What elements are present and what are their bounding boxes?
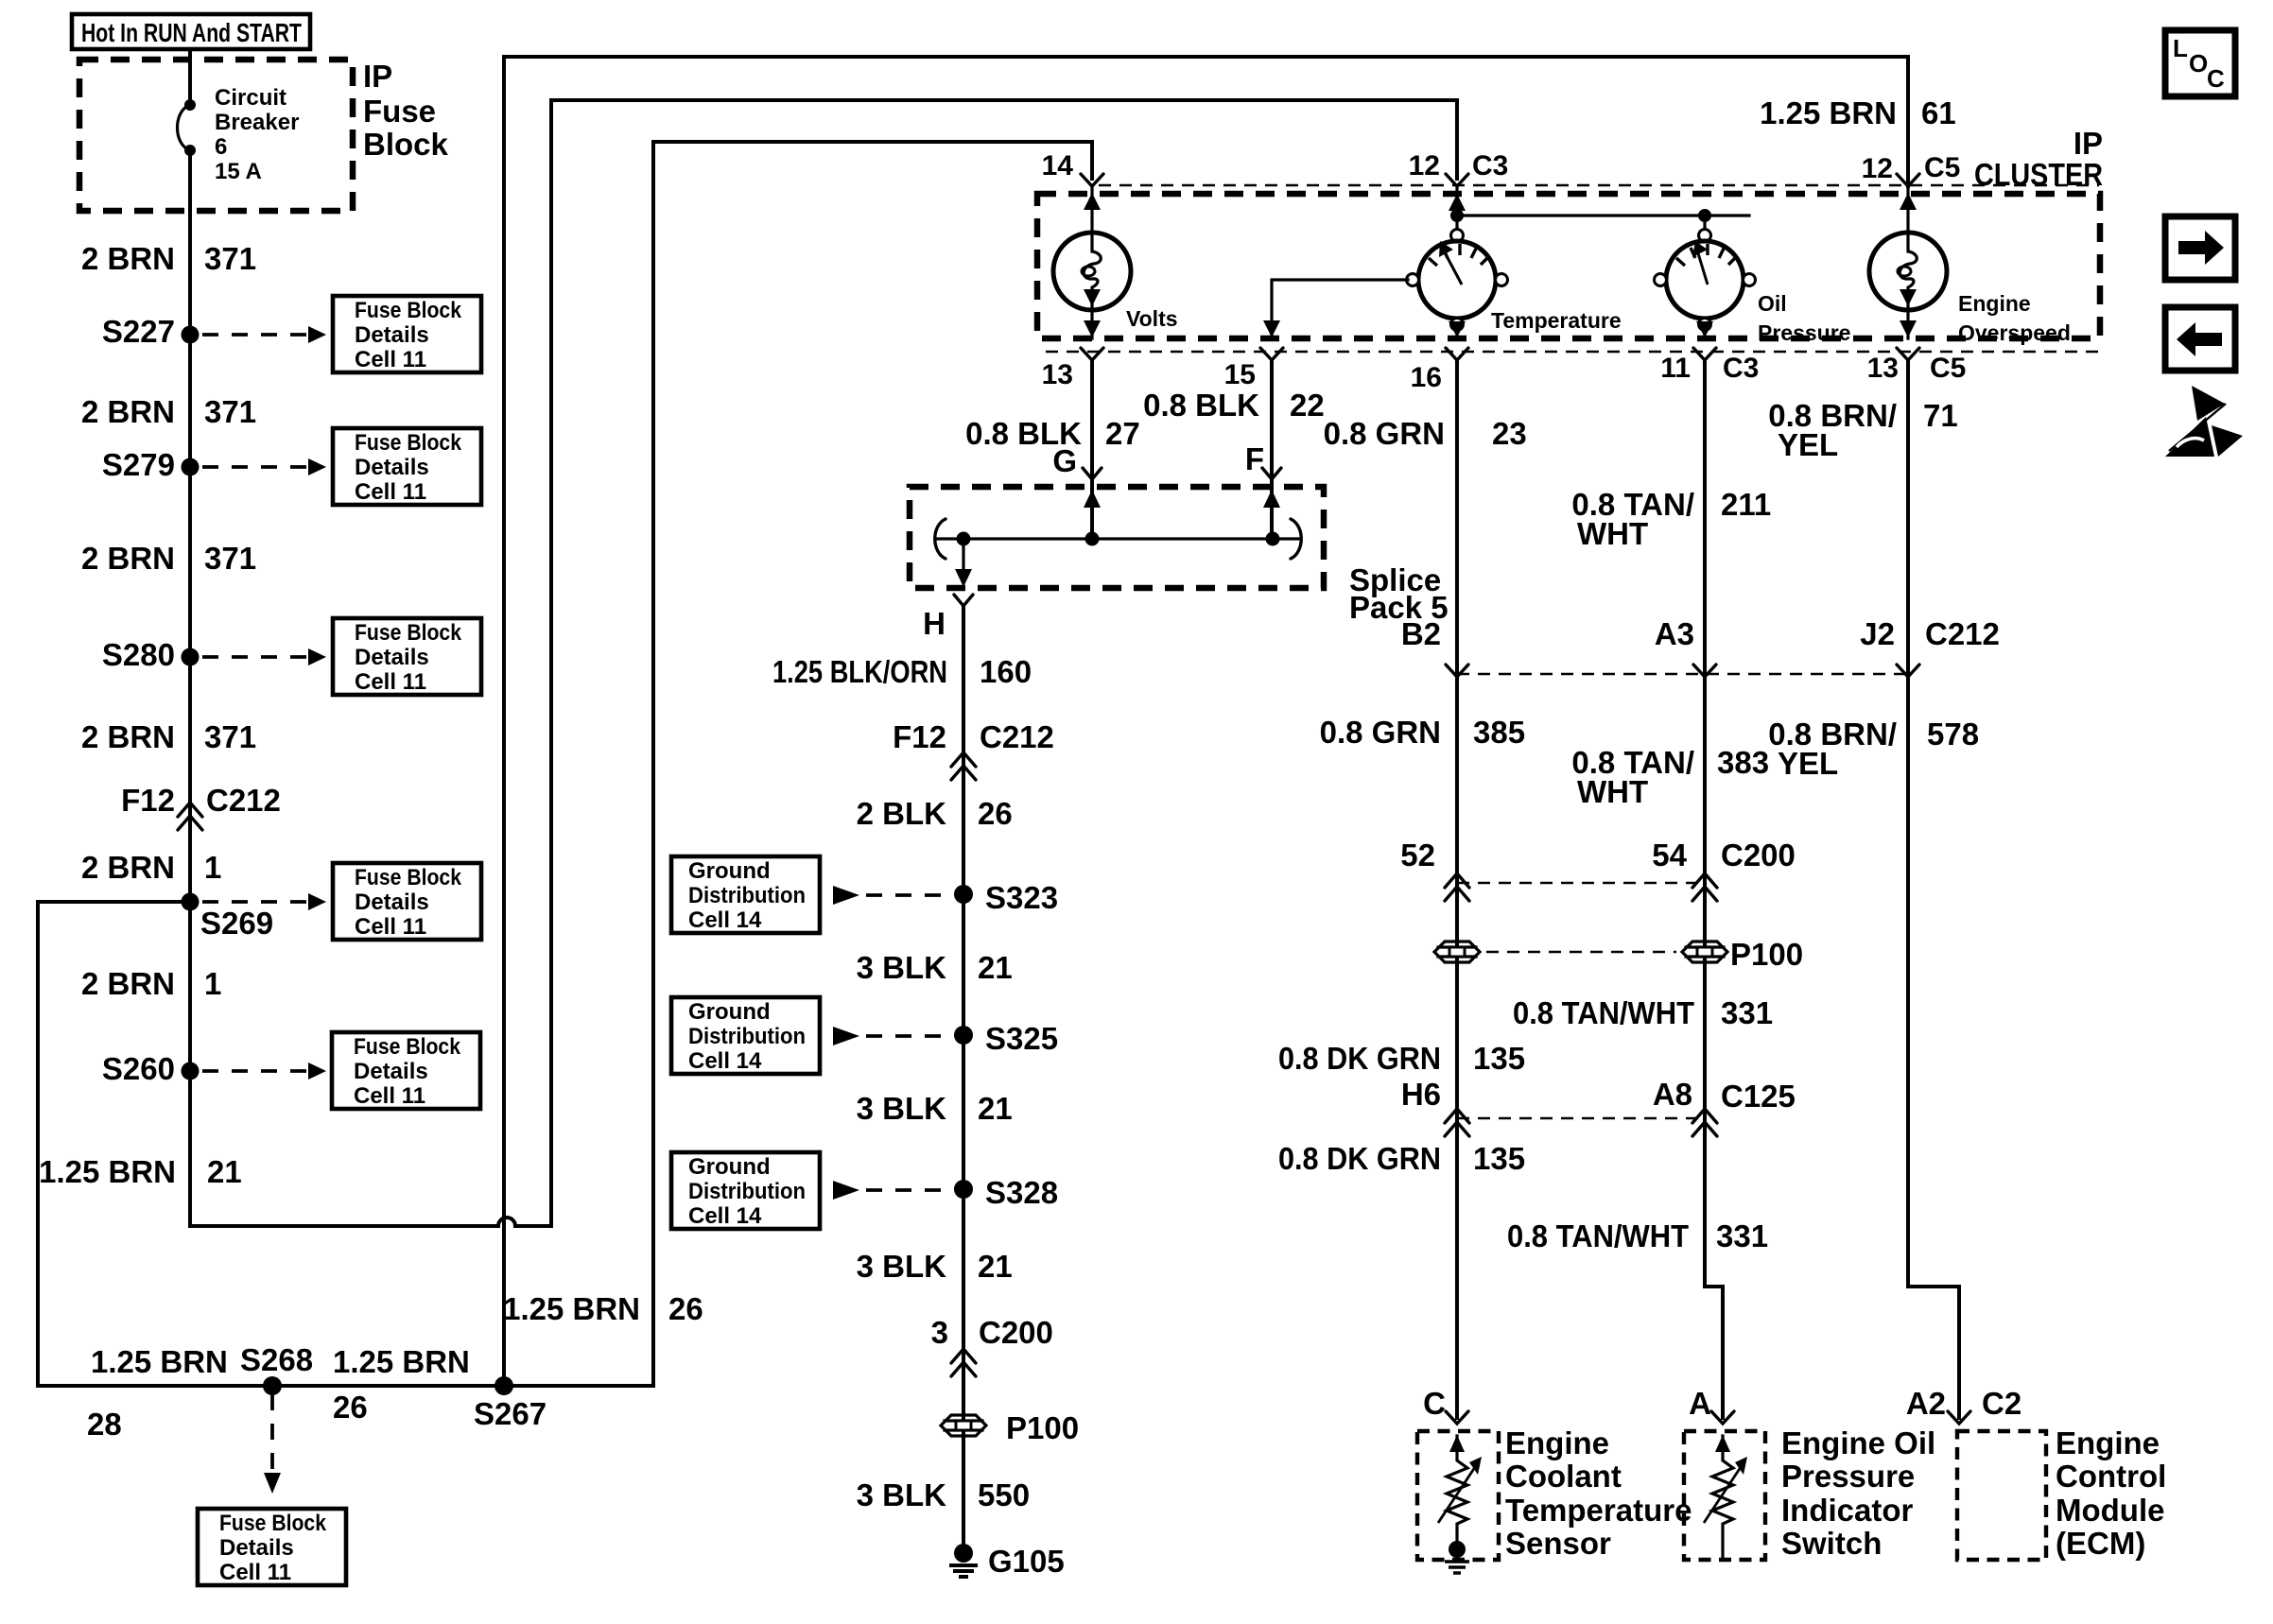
svg-text:13: 13 bbox=[1042, 359, 1073, 390]
connector row C200 dashed bbox=[1457, 882, 1705, 885]
arrow down splice H leg bbox=[955, 539, 972, 587]
svg-text:21: 21 bbox=[978, 1091, 1013, 1126]
svg-text:Engine Oil: Engine Oil bbox=[1781, 1425, 1935, 1460]
label Engine Oil Pressure Indicator Switch bbox=[1781, 1425, 1935, 1561]
svg-text:0.8 BLK: 0.8 BLK bbox=[1143, 388, 1259, 423]
gauge Oil Pressure bbox=[1655, 209, 1851, 345]
svg-text:Cell 11: Cell 11 bbox=[355, 669, 426, 695]
svg-text:Circuit: Circuit bbox=[215, 85, 286, 111]
svg-text:Coolant: Coolant bbox=[1505, 1459, 1622, 1494]
svg-text:3 BLK: 3 BLK bbox=[857, 950, 947, 985]
svg-text:Fuse Block: Fuse Block bbox=[355, 620, 462, 646]
connector row C212 dashed bbox=[1457, 673, 1908, 676]
label 3 BLK 21 (2) bbox=[857, 1091, 1013, 1126]
pin 12 C5 (overspeed feed) bbox=[1862, 152, 1961, 186]
svg-text:2 BRN: 2 BRN bbox=[81, 966, 175, 1001]
svg-text:371: 371 bbox=[204, 719, 256, 754]
label 1.25 BRN 61 bbox=[1760, 95, 1956, 130]
label 2 BRN 371 (3) bbox=[81, 541, 256, 576]
svg-text:2 BRN: 2 BRN bbox=[81, 850, 175, 885]
svg-text:B2: B2 bbox=[1401, 616, 1441, 651]
svg-text:Ground: Ground bbox=[688, 1154, 771, 1180]
splice S268 bbox=[240, 1342, 313, 1395]
svg-text:S280: S280 bbox=[102, 637, 175, 672]
legend arrow left box bbox=[2165, 307, 2235, 371]
svg-text:L: L bbox=[2173, 34, 2188, 62]
box Ground Distribution Cell 14 (S328) bbox=[671, 1152, 820, 1229]
svg-text:2 BRN: 2 BRN bbox=[81, 719, 175, 754]
label 0.8 GRN 385 bbox=[1320, 715, 1525, 750]
arrow up splice G leg bbox=[1084, 490, 1101, 539]
box Fuse Block Details Cell 11 (S268) bbox=[198, 1509, 346, 1585]
label 2 BLK 26 bbox=[857, 796, 1013, 831]
label 0.8 TAN/ 383 bbox=[1571, 745, 1769, 809]
svg-text:WHT: WHT bbox=[1577, 516, 1648, 551]
svg-text:P100: P100 bbox=[1006, 1410, 1079, 1445]
svg-text:WHT: WHT bbox=[1577, 774, 1648, 809]
svg-text:Control: Control bbox=[2056, 1459, 2166, 1494]
label Engine Control Module (ECM) bbox=[2056, 1425, 2166, 1561]
svg-text:26: 26 bbox=[978, 796, 1013, 831]
svg-text:H: H bbox=[923, 606, 946, 641]
label Splice Pack 5 bbox=[1349, 562, 1449, 625]
svg-text:A8: A8 bbox=[1653, 1077, 1692, 1112]
pin 15 bbox=[1224, 348, 1283, 390]
svg-text:1.25 BRN: 1.25 BRN bbox=[503, 1291, 640, 1326]
svg-text:2 BRN: 2 BRN bbox=[81, 541, 175, 576]
label 0.8 BRN/ 71 bbox=[1768, 398, 1957, 462]
svg-text:28: 28 bbox=[87, 1407, 122, 1442]
Engine Oil Pressure Indicator Switch dashed box bbox=[1684, 1431, 1765, 1560]
svg-text:Cell 14: Cell 14 bbox=[688, 1048, 762, 1074]
svg-text:Fuse Block: Fuse Block bbox=[355, 865, 462, 890]
svg-text:CLUSTER: CLUSTER bbox=[1974, 157, 2103, 192]
svg-text:Pressure: Pressure bbox=[1758, 320, 1850, 345]
dashed arrow to S325 bbox=[833, 1027, 946, 1045]
svg-text:12: 12 bbox=[1862, 153, 1893, 184]
svg-text:S323: S323 bbox=[985, 880, 1058, 915]
svg-text:C212: C212 bbox=[1925, 616, 2000, 651]
svg-text:F12: F12 bbox=[121, 783, 175, 818]
svg-text:135: 135 bbox=[1473, 1141, 1525, 1176]
cluster connector row (bottom thin dashed) bbox=[1046, 351, 2099, 354]
wire: 0.8 BLK 27 volts to splice G bbox=[1090, 360, 1094, 539]
svg-text:71: 71 bbox=[1923, 398, 1958, 433]
svg-text:Engine: Engine bbox=[1958, 291, 2031, 316]
svg-text:16: 16 bbox=[1411, 362, 1442, 393]
svg-text:Block: Block bbox=[363, 127, 449, 162]
lamp Engine Overspeed bbox=[1869, 186, 2071, 345]
svg-text:Details: Details bbox=[355, 455, 429, 480]
splice S325 bbox=[954, 1021, 1058, 1056]
svg-text:3: 3 bbox=[931, 1315, 948, 1350]
svg-text:550: 550 bbox=[978, 1477, 1030, 1512]
dashed arrow S268 down to details box bbox=[264, 1394, 281, 1494]
LOC legend box bbox=[2165, 30, 2235, 96]
label 0.8 BLK 22 bbox=[1143, 388, 1325, 423]
pin B2 connector C212 bbox=[1401, 616, 1468, 677]
svg-text:3 BLK: 3 BLK bbox=[857, 1477, 947, 1512]
dashed arrow S260 to details box bbox=[202, 1063, 326, 1080]
ground G105 bbox=[949, 1544, 1065, 1579]
svg-text:1.25 BRN: 1.25 BRN bbox=[91, 1344, 228, 1379]
label 3 BLK 550 bbox=[857, 1477, 1030, 1512]
splice S269 bbox=[182, 893, 274, 942]
svg-text:1.25 BLK/ORN: 1.25 BLK/ORN bbox=[772, 654, 947, 689]
wire: 0.8 GRN coolant sensor column bbox=[1455, 360, 1459, 1418]
label 3 BLK 21 (3) bbox=[857, 1249, 1013, 1284]
grommet P100 middle leg bbox=[941, 1410, 1079, 1445]
label 0.8 TAN/ 211 bbox=[1571, 487, 1771, 551]
label 0.8 TAN/WHT 331 (1) bbox=[1513, 995, 1773, 1030]
dashed arrow S280 to details box bbox=[202, 648, 326, 665]
svg-text:Switch: Switch bbox=[1781, 1526, 1882, 1561]
svg-text:Cell 11: Cell 11 bbox=[355, 347, 426, 372]
svg-text:Fuse: Fuse bbox=[363, 94, 436, 129]
dashed arrow S269 to details box bbox=[202, 893, 326, 910]
svg-text:11: 11 bbox=[1660, 353, 1691, 384]
svg-text:6: 6 bbox=[215, 134, 227, 160]
svg-text:C200: C200 bbox=[979, 1315, 1053, 1350]
svg-text:S328: S328 bbox=[985, 1175, 1058, 1210]
svg-text:A3: A3 bbox=[1655, 616, 1694, 651]
pin C coolant sensor bbox=[1423, 1386, 1468, 1424]
pin 16 bbox=[1411, 348, 1468, 393]
pin 13 C5 bbox=[1867, 348, 1967, 384]
svg-text:Engine: Engine bbox=[1505, 1425, 1609, 1460]
label 1.25 BRN 26 (riser) bbox=[503, 1291, 703, 1326]
svg-text:Details: Details bbox=[354, 1059, 428, 1084]
svg-text:Overspeed: Overspeed bbox=[1958, 320, 2071, 345]
svg-text:Details: Details bbox=[355, 322, 429, 348]
wire: 1.25 BRN 61 S267 riser bbox=[504, 57, 1908, 186]
svg-text:C212: C212 bbox=[206, 783, 281, 818]
svg-text:1.25 BRN: 1.25 BRN bbox=[1760, 95, 1897, 130]
header box "Hot In RUN And START" bbox=[72, 14, 310, 49]
svg-text:Hot In RUN And START: Hot In RUN And START bbox=[81, 18, 302, 47]
label 2 BRN 371 (2) bbox=[81, 394, 256, 429]
circuit breaker 6 15A bbox=[178, 85, 300, 184]
svg-text:21: 21 bbox=[207, 1154, 242, 1189]
svg-text:14: 14 bbox=[1042, 150, 1074, 181]
splice pack bus bbox=[935, 519, 1302, 559]
label 2 BRN 371 (4) bbox=[81, 719, 256, 754]
ESD warning symbol bbox=[2165, 386, 2243, 457]
splice S328 bbox=[954, 1175, 1058, 1210]
switch symbol oil pressure bbox=[1704, 1435, 1747, 1558]
svg-text:Temperature: Temperature bbox=[1505, 1493, 1692, 1528]
svg-text:Module: Module bbox=[2056, 1493, 2164, 1528]
connector C212 pin F12 middle leg bbox=[893, 719, 1054, 780]
IP CLUSTER dashed box bbox=[1037, 194, 2100, 338]
Engine Coolant Temperature Sensor dashed box bbox=[1417, 1431, 1499, 1560]
svg-text:A2: A2 bbox=[1906, 1386, 1946, 1421]
svg-text:27: 27 bbox=[1105, 416, 1140, 451]
box Fuse Block Details Cell 11 (S260) bbox=[332, 1032, 480, 1109]
svg-text:331: 331 bbox=[1716, 1218, 1768, 1253]
svg-text:C212: C212 bbox=[980, 719, 1054, 754]
svg-text:1.25 BRN: 1.25 BRN bbox=[39, 1154, 176, 1189]
svg-text:371: 371 bbox=[204, 541, 256, 576]
box Ground Distribution Cell 14 (S325) bbox=[671, 997, 820, 1074]
svg-text:3 BLK: 3 BLK bbox=[857, 1249, 947, 1284]
svg-text:F: F bbox=[1245, 441, 1264, 476]
wire: 1.25 BRN 26 up to cluster pin 12 C3 bbox=[515, 100, 1457, 1226]
svg-text:61: 61 bbox=[1921, 95, 1956, 130]
svg-text:0.8 GRN: 0.8 GRN bbox=[1320, 715, 1441, 750]
svg-text:3 BLK: 3 BLK bbox=[857, 1091, 947, 1126]
box Fuse Block Details Cell 11 (S279) bbox=[333, 428, 481, 505]
wire: 1.25 BLK/ORN 160 middle ground leg bbox=[962, 606, 965, 1553]
wire: S267 vertical bbox=[502, 57, 506, 1386]
svg-text:1: 1 bbox=[204, 966, 221, 1001]
wire hop over S267 vertical bbox=[498, 1218, 515, 1226]
svg-text:Indicator: Indicator bbox=[1781, 1493, 1914, 1528]
wire: branch from S269 to ground bus bbox=[38, 142, 1092, 1386]
svg-text:0.8 TAN/WHT: 0.8 TAN/WHT bbox=[1507, 1218, 1689, 1253]
Engine Control Module dashed box bbox=[1957, 1431, 2046, 1560]
svg-text:S279: S279 bbox=[102, 447, 175, 482]
svg-text:J2: J2 bbox=[1860, 616, 1895, 651]
svg-text:160: 160 bbox=[980, 654, 1032, 689]
svg-text:Distribution: Distribution bbox=[688, 1179, 806, 1204]
svg-text:2 BLK: 2 BLK bbox=[857, 796, 947, 831]
svg-text:C125: C125 bbox=[1721, 1079, 1796, 1114]
svg-text:Breaker: Breaker bbox=[215, 110, 299, 135]
svg-text:1: 1 bbox=[204, 850, 221, 885]
svg-text:Engine: Engine bbox=[2056, 1425, 2160, 1460]
pin 13 bbox=[1042, 348, 1103, 390]
svg-text:Cell 11: Cell 11 bbox=[355, 914, 426, 940]
svg-text:Temperature: Temperature bbox=[1491, 308, 1622, 333]
pin A8 connector C125 bbox=[1653, 1077, 1796, 1136]
pin 11 C3 bbox=[1660, 348, 1759, 384]
svg-text:21: 21 bbox=[978, 1249, 1013, 1284]
svg-text:1.25 BRN: 1.25 BRN bbox=[333, 1344, 470, 1379]
IP Fuse Block dashed box bbox=[79, 60, 353, 211]
wire: temperature gauge elbow to pin 15 bbox=[1272, 280, 1408, 338]
svg-text:2 BRN: 2 BRN bbox=[81, 241, 175, 276]
svg-text:211: 211 bbox=[1721, 487, 1771, 522]
svg-text:2 BRN: 2 BRN bbox=[81, 394, 175, 429]
svg-text:Sensor: Sensor bbox=[1505, 1526, 1611, 1561]
box Fuse Block Details Cell 11 (S280) bbox=[333, 618, 481, 695]
svg-text:C2: C2 bbox=[1982, 1386, 2021, 1421]
svg-text:15: 15 bbox=[1224, 359, 1256, 390]
pin 54 connector C200 bbox=[1652, 838, 1796, 901]
pin J2 connector C212 bbox=[1860, 616, 2000, 677]
thermistor symbol coolant sensor bbox=[1438, 1435, 1482, 1573]
grommet P100 coolant column bbox=[1434, 942, 1480, 962]
svg-text:15 A: 15 A bbox=[215, 159, 262, 184]
svg-text:Pressure: Pressure bbox=[1781, 1459, 1915, 1494]
label 0.8 DK GRN 135 (1) bbox=[1278, 1041, 1525, 1076]
svg-text:G105: G105 bbox=[988, 1544, 1065, 1579]
svg-text:S267: S267 bbox=[474, 1396, 547, 1431]
box Fuse Block Details Cell 11 (S269) bbox=[333, 863, 481, 940]
label 0.8 TAN/WHT 331 (2) bbox=[1507, 1218, 1768, 1253]
pin A2 C2 ECM bbox=[1906, 1386, 2021, 1424]
svg-text:331: 331 bbox=[1721, 995, 1773, 1030]
svg-text:0.8 GRN: 0.8 GRN bbox=[1324, 416, 1445, 451]
pin 52 connector C200 bbox=[1400, 838, 1469, 901]
label Engine Coolant Temperature Sensor bbox=[1505, 1425, 1692, 1561]
label 3 BLK 21 (1) bbox=[857, 950, 1013, 985]
wire: 0.8 TAN/WHT oil pressure column bbox=[1705, 360, 1723, 1418]
svg-text:A: A bbox=[1689, 1386, 1711, 1421]
svg-text:13: 13 bbox=[1867, 353, 1899, 384]
label 0.8 GRN 23 bbox=[1324, 416, 1527, 451]
svg-text:Cell 11: Cell 11 bbox=[219, 1560, 291, 1585]
dashed arrow S279 to details box bbox=[202, 458, 326, 475]
svg-text:22: 22 bbox=[1290, 388, 1325, 423]
svg-text:383: 383 bbox=[1717, 745, 1769, 780]
svg-text:0.8 DK GRN: 0.8 DK GRN bbox=[1278, 1141, 1441, 1176]
svg-text:Cell 11: Cell 11 bbox=[355, 479, 426, 505]
box Ground Distribution Cell 14 (S323) bbox=[671, 856, 820, 933]
label 0.8 BLK 27 bbox=[965, 416, 1140, 451]
splice S279 bbox=[102, 447, 200, 482]
Splice Pack 5 dashed box bbox=[910, 487, 1324, 588]
lamp Volts bbox=[1053, 186, 1178, 338]
label 2 BRN 1 (2) bbox=[81, 966, 221, 1001]
label 2 BRN 1 (1) bbox=[81, 850, 221, 885]
arrow up splice F leg bbox=[1263, 490, 1280, 539]
splice S280 bbox=[102, 637, 200, 672]
pin 12 C3 (temperature feed) bbox=[1409, 150, 1509, 186]
svg-text:54: 54 bbox=[1652, 838, 1687, 872]
svg-text:C: C bbox=[1423, 1386, 1446, 1421]
svg-text:Details: Details bbox=[355, 645, 429, 670]
pin 14 (volts feed) bbox=[1042, 150, 1103, 186]
svg-text:S269: S269 bbox=[200, 906, 273, 941]
label IP Fuse Block bbox=[363, 59, 449, 162]
svg-text:Cell 11: Cell 11 bbox=[354, 1083, 425, 1109]
wire: 12C3 jumper to oil pressure gauge bbox=[1457, 214, 1749, 216]
label 2 BRN 371 (1) bbox=[81, 241, 256, 276]
svg-text:Volts: Volts bbox=[1126, 306, 1178, 331]
svg-text:C5: C5 bbox=[1930, 353, 1966, 384]
svg-text:S260: S260 bbox=[102, 1051, 175, 1086]
label IP CLUSTER bbox=[1974, 126, 2103, 192]
svg-text:C200: C200 bbox=[1721, 838, 1796, 872]
grommet P100 oil column bbox=[1682, 937, 1803, 972]
svg-text:P100: P100 bbox=[1730, 937, 1803, 972]
svg-text:Distribution: Distribution bbox=[688, 883, 806, 908]
pin F splice pack bbox=[1245, 441, 1281, 479]
svg-text:52: 52 bbox=[1400, 838, 1435, 872]
svg-text:21: 21 bbox=[978, 950, 1013, 985]
svg-text:IP: IP bbox=[2073, 126, 2103, 161]
label 0.8 BRN/ 578 bbox=[1768, 717, 1979, 781]
splice S260 bbox=[102, 1051, 200, 1086]
svg-text:135: 135 bbox=[1473, 1041, 1525, 1076]
svg-text:H6: H6 bbox=[1401, 1077, 1441, 1112]
svg-text:G: G bbox=[1052, 443, 1077, 478]
svg-text:YEL: YEL bbox=[1778, 427, 1838, 462]
svg-text:S325: S325 bbox=[985, 1021, 1058, 1056]
svg-text:Cell 14: Cell 14 bbox=[688, 907, 762, 933]
svg-text:Fuse Block: Fuse Block bbox=[355, 430, 462, 456]
svg-text:(ECM): (ECM) bbox=[2056, 1526, 2145, 1561]
svg-text:Oil: Oil bbox=[1758, 291, 1787, 316]
svg-text:Details: Details bbox=[219, 1535, 294, 1561]
svg-text:385: 385 bbox=[1473, 715, 1525, 750]
svg-text:F12: F12 bbox=[893, 719, 946, 754]
svg-text:12: 12 bbox=[1409, 150, 1440, 181]
pin H splice pack bbox=[923, 595, 973, 641]
svg-text:371: 371 bbox=[204, 241, 256, 276]
svg-text:0.8 DK GRN: 0.8 DK GRN bbox=[1278, 1041, 1441, 1076]
box Fuse Block Details Cell 11 (S227) bbox=[333, 296, 481, 372]
cluster connector row (top thin dashed) bbox=[1099, 184, 2099, 187]
svg-text:Ground: Ground bbox=[688, 999, 771, 1025]
svg-text:Distribution: Distribution bbox=[688, 1024, 806, 1049]
svg-text:371: 371 bbox=[204, 394, 256, 429]
svg-text:26: 26 bbox=[333, 1390, 368, 1425]
label 1.25 BRN 21 bbox=[39, 1154, 242, 1189]
svg-text:23: 23 bbox=[1492, 416, 1527, 451]
splice S227 bbox=[102, 314, 200, 349]
svg-text:578: 578 bbox=[1927, 717, 1979, 752]
splice S267 bbox=[474, 1376, 547, 1431]
svg-text:C3: C3 bbox=[1472, 150, 1508, 181]
svg-text:Fuse Block: Fuse Block bbox=[354, 1034, 461, 1060]
svg-text:Cell 14: Cell 14 bbox=[688, 1203, 762, 1229]
label 0.8 DK GRN 135 (2) bbox=[1278, 1141, 1525, 1176]
pin A3 connector C212 bbox=[1655, 616, 1716, 677]
svg-text:O: O bbox=[2189, 49, 2208, 78]
svg-text:Fuse Block: Fuse Block bbox=[355, 298, 462, 323]
label 1.25 BLK/ORN 160 bbox=[772, 654, 1032, 689]
dashed arrow to S323 bbox=[833, 886, 946, 905]
wire: main left vertical 2 BRN bbox=[190, 150, 498, 1226]
svg-text:26: 26 bbox=[668, 1291, 703, 1326]
dashed arrow to S328 bbox=[833, 1181, 946, 1200]
wire: 0.8 BRN/YEL ECM column bbox=[1908, 360, 1959, 1418]
connector row C125 dashed bbox=[1457, 1117, 1705, 1120]
legend arrow right box bbox=[2165, 216, 2235, 280]
pin G splice pack bbox=[1052, 443, 1102, 479]
wire: 0.8 BLK 22 to splice F bbox=[1270, 360, 1274, 539]
dashed arrow S227 to details box bbox=[202, 326, 326, 343]
dashed line between P100 grommets bbox=[1486, 951, 1676, 954]
connector C212 pin F12 on left wire bbox=[121, 783, 281, 830]
svg-text:Fuse Block: Fuse Block bbox=[219, 1511, 327, 1536]
svg-text:Ground: Ground bbox=[688, 858, 771, 884]
pin A oil pressure switch bbox=[1689, 1386, 1734, 1424]
pin H6 connector C125 bbox=[1401, 1077, 1469, 1136]
svg-text:YEL: YEL bbox=[1778, 746, 1838, 781]
svg-text:C3: C3 bbox=[1723, 353, 1759, 384]
svg-text:C5: C5 bbox=[1924, 152, 1960, 183]
gauge Temperature bbox=[1407, 186, 1622, 338]
svg-text:IP: IP bbox=[363, 59, 392, 94]
connector C200 pin 3 middle leg bbox=[931, 1315, 1053, 1376]
svg-text:S227: S227 bbox=[102, 314, 175, 349]
wire: main feed from header into fuse block bbox=[188, 49, 192, 105]
splice S323 bbox=[954, 880, 1058, 915]
svg-text:C: C bbox=[2207, 64, 2225, 93]
svg-text:0.8 TAN/WHT: 0.8 TAN/WHT bbox=[1513, 995, 1694, 1030]
svg-text:Details: Details bbox=[355, 890, 429, 915]
svg-text:S268: S268 bbox=[240, 1342, 313, 1377]
